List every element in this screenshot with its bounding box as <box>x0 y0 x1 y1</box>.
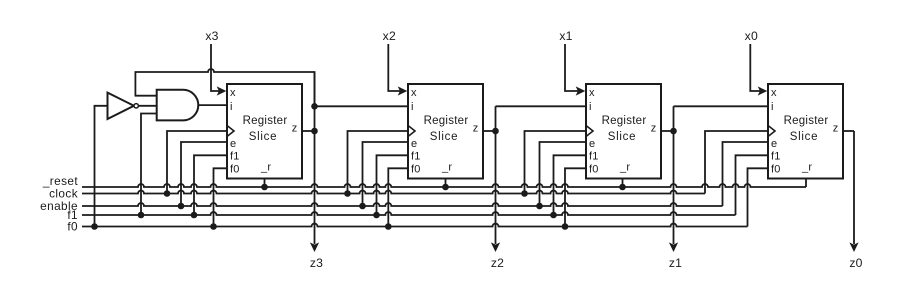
junction _reset tap 3 <box>619 184 626 191</box>
svg-text:Register: Register <box>424 115 469 127</box>
wire f0 bus <box>82 224 748 227</box>
wire U1 z to U2 i <box>315 105 409 107</box>
svg-text:x1: x1 <box>559 29 572 43</box>
junction clock tap 2 <box>344 190 351 197</box>
junction f1 tap 4 <box>550 212 557 219</box>
arrowhead x0 <box>758 86 768 95</box>
wire _reset tap to U1 _r <box>264 179 266 188</box>
wire enable tap to U2 <box>363 142 409 206</box>
wire z3 vertical <box>314 72 316 245</box>
inverter bubble <box>134 104 138 108</box>
register slice U1 <box>227 84 302 179</box>
svg-text:x: x <box>411 87 417 99</box>
register slice U3 <box>586 84 661 179</box>
wire x1 input <box>565 44 579 91</box>
svg-text:x: x <box>230 87 236 99</box>
wire f1 tap to U2 <box>377 155 409 215</box>
junction enable tap 3 <box>536 203 543 210</box>
junction z3 z-node <box>311 128 318 135</box>
wire f0 tap to U1 <box>214 168 228 226</box>
wire z2 vertical <box>495 106 497 244</box>
wire clock tap to U4 <box>705 131 768 194</box>
svg-text:z: z <box>473 123 479 135</box>
wire z0 vertical <box>853 131 855 244</box>
register slice U2 <box>408 84 483 179</box>
svg-text:_r: _r <box>260 161 271 173</box>
wire inverter out to AND <box>138 105 156 107</box>
wire f1 bus <box>82 212 736 215</box>
wire AND top input <box>135 95 157 97</box>
wire _reset tap to U2 _r <box>445 179 447 188</box>
wire _reset tap to U3 _r <box>622 179 624 188</box>
svg-text:x2: x2 <box>383 29 396 43</box>
svg-text:i: i <box>230 101 233 113</box>
arrowhead z2 <box>491 242 500 252</box>
svg-text:z: z <box>292 123 298 135</box>
svg-text:Register: Register <box>602 115 647 127</box>
svg-text:i: i <box>771 101 774 113</box>
svg-text:f1: f1 <box>411 151 421 163</box>
inverter U5 <box>108 93 135 119</box>
junction clock tap 3 <box>521 190 528 197</box>
svg-text:x3: x3 <box>205 29 218 43</box>
wire _reset tap to U4 _r <box>805 179 807 188</box>
svg-text:Slice: Slice <box>790 131 818 143</box>
svg-text:z1: z1 <box>669 256 682 270</box>
svg-text:f0: f0 <box>589 164 599 176</box>
wire x3 input <box>211 44 220 91</box>
svg-text:z: z <box>833 123 839 135</box>
svg-text:x0: x0 <box>745 29 758 43</box>
svg-text:Register: Register <box>784 115 829 127</box>
wire feedback z3 to AND input <box>135 69 314 106</box>
AND gate U6 <box>157 90 199 121</box>
wire U2 z out <box>483 130 496 132</box>
register slice U4 <box>768 84 843 179</box>
svg-text:Slice: Slice <box>608 131 636 143</box>
arrowhead z0 <box>849 242 858 252</box>
svg-text:f0: f0 <box>771 164 781 176</box>
svg-text:_r: _r <box>619 161 630 173</box>
junction z1 z-node <box>670 128 677 135</box>
wire U4 z out <box>843 130 854 132</box>
junction f0 tap 1 <box>91 223 98 230</box>
arrowhead z3 <box>310 242 319 252</box>
svg-text:z3: z3 <box>310 256 323 270</box>
wire f0 tap to U2 <box>388 168 408 226</box>
junction _reset tap 1 <box>261 184 268 191</box>
svg-text:z: z <box>651 123 657 135</box>
svg-text:z0: z0 <box>849 256 862 270</box>
svg-text:x: x <box>589 87 595 99</box>
wire clock tap to U2 <box>348 131 409 194</box>
arrowhead x2 <box>398 86 408 95</box>
wire clock tap to U1 <box>167 131 227 194</box>
svg-text:f1: f1 <box>230 151 240 163</box>
junction enable tap 1 <box>178 203 185 210</box>
svg-text:f0: f0 <box>230 164 240 176</box>
wire _reset bus <box>82 184 806 187</box>
svg-text:f1: f1 <box>589 151 599 163</box>
wire f1 tap to U4 <box>736 155 769 215</box>
svg-text:e: e <box>589 138 595 150</box>
svg-text:_r: _r <box>441 161 452 173</box>
wire f0 tap to U4 <box>748 168 769 226</box>
wire enable bus <box>82 203 723 206</box>
wire AND out to U1 i <box>198 104 227 106</box>
wire f1 tap to U3 <box>554 155 587 215</box>
svg-text:f0: f0 <box>411 164 421 176</box>
svg-text:f0: f0 <box>67 220 78 234</box>
junction f0 tap 4 <box>562 223 569 230</box>
arrowhead z1 <box>669 242 678 252</box>
junction enable tap 2 <box>359 203 366 210</box>
arrowhead x3 <box>217 86 227 95</box>
junction f1 tap 1 <box>138 212 145 219</box>
wire U2 z to U3 i <box>496 105 587 107</box>
wire enable tap to U4 <box>723 142 769 206</box>
wire enable tap to U1 <box>181 142 227 206</box>
wire U3 z to U4 i <box>674 105 769 107</box>
wire clock bus <box>82 191 705 194</box>
wire clock tap to U3 <box>525 131 587 194</box>
junction z2 z-node <box>492 128 499 135</box>
junction z3 i-node <box>311 103 318 110</box>
wire f1 to AND input <box>141 114 157 216</box>
junction f0 tap 3 <box>385 223 392 230</box>
svg-text:e: e <box>230 138 236 150</box>
svg-text:Slice: Slice <box>430 131 458 143</box>
junction f1 tap 2 <box>191 212 198 219</box>
svg-text:_r: _r <box>801 161 812 173</box>
wire f0 to inverter input <box>95 106 108 227</box>
wire enable tap to U3 <box>540 142 587 206</box>
wire z1 vertical <box>673 106 675 244</box>
arrowhead x1 <box>576 86 586 95</box>
wire x2 input <box>388 44 401 91</box>
svg-text:e: e <box>411 138 417 150</box>
svg-text:Register: Register <box>243 115 288 127</box>
wire U1 z out <box>302 130 315 132</box>
svg-text:f1: f1 <box>771 151 781 163</box>
svg-text:z2: z2 <box>491 256 504 270</box>
svg-text:i: i <box>411 101 414 113</box>
svg-text:x: x <box>771 87 777 99</box>
junction clock tap 1 <box>164 190 171 197</box>
svg-text:e: e <box>771 138 777 150</box>
wire x0 input <box>750 44 761 91</box>
wire f1 tap to U1 <box>194 155 227 215</box>
junction f0 tap 2 <box>210 223 217 230</box>
svg-text:Slice: Slice <box>249 131 277 143</box>
svg-text:i: i <box>589 101 592 113</box>
wire U3 z out <box>661 130 674 132</box>
junction f1 tap 3 <box>373 212 380 219</box>
junction _reset tap 2 <box>442 184 449 191</box>
wire f0 tap to U3 <box>565 168 586 226</box>
